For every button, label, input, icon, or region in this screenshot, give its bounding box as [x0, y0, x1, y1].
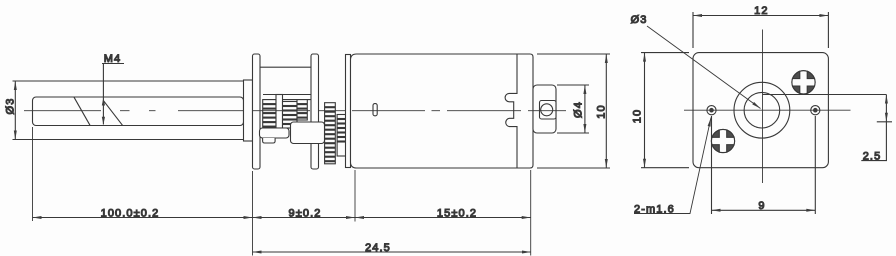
output gear hub bar — [260, 128, 290, 138]
svg-text:Ø3: Ø3 — [631, 14, 648, 26]
svg-text:15±0.2: 15±0.2 — [437, 208, 477, 220]
leader 2-m1.6 — [634, 118, 711, 214]
motor end cap seam with clip tabs — [505, 54, 517, 168]
dimension Ø3 — [14, 81, 16, 140]
gearbox housing top line — [260, 66, 311, 68]
face vertical centerline — [762, 30, 764, 184]
rear bearing circle — [541, 104, 553, 116]
dimension 9 — [712, 116, 816, 214]
hub notch — [263, 138, 276, 143]
svg-text:10: 10 — [596, 104, 608, 118]
shaft outer thread lines — [13, 81, 244, 140]
dimension M4 — [102, 64, 124, 125]
svg-text:9: 9 — [758, 200, 765, 212]
shaft hole circle — [744, 92, 780, 128]
gear stack middle — [283, 102, 298, 129]
svg-text:9±0.2: 9±0.2 — [289, 208, 322, 220]
gear pinion shaft — [276, 95, 283, 129]
shaft rod body — [33, 97, 244, 126]
svg-text:10: 10 — [632, 109, 644, 123]
svg-text:100.0±0.2: 100.0±0.2 — [101, 208, 160, 220]
svg-text:Ø3: Ø3 — [5, 98, 17, 115]
mounting hole left — [707, 106, 716, 115]
gearbox front plate — [253, 54, 261, 169]
dimension 2.5 — [861, 95, 892, 161]
gear cluster top line — [263, 95, 311, 100]
svg-text:Ø4: Ø4 — [573, 101, 585, 118]
svg-text:12: 12 — [754, 5, 768, 17]
dimension 10 side view — [537, 54, 610, 168]
dimension 10 face view — [641, 53, 689, 168]
svg-text:M4: M4 — [104, 53, 121, 65]
first stage gear column — [325, 103, 336, 164]
thread runout diagonal 1 — [74, 97, 90, 125]
boss outer circle — [734, 82, 790, 138]
motor pinion gear column — [337, 115, 346, 157]
gearbox rear plate — [311, 54, 319, 169]
extension lines bottom dims — [33, 127, 531, 256]
leader Ø3 — [647, 26, 761, 109]
face plate — [693, 53, 828, 168]
motor front flange — [346, 55, 351, 168]
face horizontal centerline — [684, 109, 851, 111]
large output gear — [291, 122, 325, 144]
gear stack right — [297, 100, 307, 120]
dimension Ø4 — [557, 85, 589, 133]
rear hub band — [540, 101, 557, 120]
rear bearing boss — [533, 85, 556, 133]
thread runout diagonal 2 — [103, 101, 122, 126]
mounting hole right — [811, 106, 820, 115]
dimension 12 — [693, 12, 828, 48]
motor vent hole — [373, 104, 377, 116]
svg-text:24.5: 24.5 — [365, 242, 391, 254]
shaft centerline — [24, 110, 566, 112]
dimension line 24.5 — [253, 251, 532, 253]
gearbox shaft bushing — [244, 80, 253, 141]
gear stack left — [263, 100, 276, 128]
motor body — [351, 54, 534, 168]
screw top-right — [792, 71, 815, 94]
dimension line 100/9/15 — [33, 217, 531, 219]
2.5 extension line — [763, 94, 887, 96]
svg-text:2.5: 2.5 — [863, 151, 882, 163]
screw bottom-left — [711, 129, 734, 152]
